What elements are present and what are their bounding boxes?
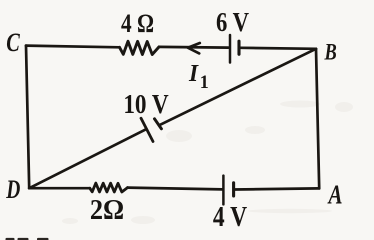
svg-text:2Ω: 2Ω [90, 193, 124, 225]
svg-text:4 V: 4 V [213, 201, 247, 232]
wire V3 to node B (diagonal) [159, 49, 316, 125]
battery V3 10V short plate [155, 119, 162, 129]
svg-text:D: D [5, 175, 20, 203]
wire C to D (left side) [26, 46, 29, 189]
wire D to battery V3 (diagonal) [29, 129, 146, 188]
wire D to R2 [29, 187, 90, 190]
svg-text:I1: I1 [188, 60, 209, 92]
battery V2 4V long plate [222, 176, 225, 205]
svg-text:10 V: 10 V [123, 90, 168, 119]
svg-text:A: A [327, 180, 343, 210]
wire V2 to node A [234, 188, 319, 189]
arrow I1 (current direction, pointing left) [188, 43, 200, 53]
wire B to A (right side) [316, 49, 319, 189]
battery V1 6V long plate [229, 35, 232, 63]
resistor R1 4 ohm [120, 41, 160, 54]
svg-text:4 Ω: 4 Ω [121, 10, 154, 38]
svg-text:B: B [324, 39, 337, 66]
wire C to R1 [26, 46, 120, 48]
svg-text:6 V: 6 V [216, 8, 249, 37]
svg-text:C: C [6, 29, 20, 58]
clipped text at bottom edge [6, 238, 49, 240]
wire R2 to battery V2 [128, 188, 223, 190]
wire V1 to node B [240, 48, 316, 49]
resistor R2 2 ohm [90, 183, 128, 192]
battery V3 10V long plate [141, 118, 153, 141]
battery V2 4V short plate [232, 183, 235, 196]
wire R1 to battery V1 [159, 46, 228, 49]
battery V1 6V short plate [237, 41, 240, 54]
